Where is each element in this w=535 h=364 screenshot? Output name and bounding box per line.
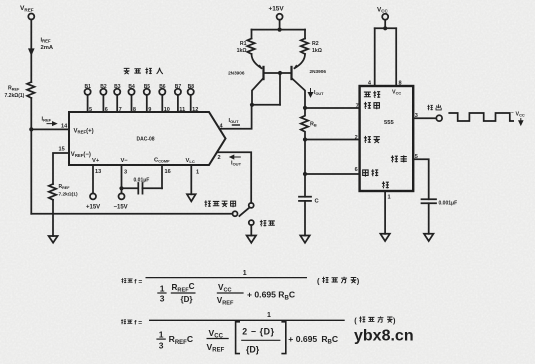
wire RREF to pin14 node <box>30 98 32 129</box>
wire pin15 <box>53 153 69 184</box>
wire rail to R1 <box>251 30 253 39</box>
junction Q1 collector node <box>250 103 254 107</box>
wire V- pin3 <box>121 165 123 193</box>
wire +15V rail <box>252 29 306 31</box>
wire trigger to threshold <box>304 140 306 175</box>
label trigger (chu fa) <box>364 136 380 143</box>
ground below 555 <box>380 234 389 241</box>
input B4 terminal <box>128 84 135 95</box>
wire discharge pin7 <box>305 107 360 109</box>
current arrow IREF 2mA <box>29 38 54 55</box>
resistor R2 1k <box>301 39 322 55</box>
wire B6 pin10 <box>161 95 163 112</box>
wire mirror bottom <box>252 104 280 106</box>
label digital-input (shu zi shu ru) <box>124 68 163 74</box>
wire IOUT pin4 to mirror <box>220 105 252 129</box>
timer U2 555 box <box>360 86 414 191</box>
capacitor 0.001uF control <box>422 199 458 206</box>
label frequency f (pin lv) <box>121 319 126 324</box>
junction VCC split <box>383 26 387 30</box>
current mirror <box>228 5 326 110</box>
label reset (fu wei) <box>364 91 380 98</box>
wire +15V down <box>279 20 281 30</box>
label linear mode (xian xing fang shi) <box>317 277 360 286</box>
wire VLC pin1 to ground <box>190 165 192 194</box>
terminal output <box>436 115 442 121</box>
junction threshold node <box>303 172 307 176</box>
bracket left <box>236 322 240 354</box>
switch S1 pole <box>249 203 254 208</box>
wire B2 pin6 <box>102 95 104 112</box>
junction base node <box>278 71 282 75</box>
DAC-08 U1 body <box>69 112 226 165</box>
label IOUT-prime with down arrow <box>308 88 324 97</box>
label IREF with right arrow <box>42 117 57 126</box>
label VCC amplitude <box>511 110 525 125</box>
ground below control cap <box>424 234 433 241</box>
wire RREF' to ground <box>52 200 54 236</box>
digital inputs header <box>85 68 199 113</box>
wire rail to R2 <box>304 30 306 39</box>
node VREF terminal <box>20 5 34 20</box>
wire VREF node down to bottom rail <box>30 129 32 213</box>
switch blade <box>239 207 249 216</box>
wire B3 pin7 <box>116 95 118 112</box>
wire linear throw to ground <box>250 225 252 235</box>
wire threshold to capacitor C <box>304 174 306 197</box>
terminal VCC top <box>377 6 389 19</box>
DAC right pins <box>218 105 252 203</box>
switch throw linear <box>249 220 254 225</box>
junction trigger node <box>303 137 307 141</box>
formula 2 expanded mode <box>121 312 414 354</box>
capacitor 0.01uF compensation <box>122 178 163 194</box>
input B6 terminal <box>159 84 166 95</box>
label frequency f (pin lv) <box>121 278 126 283</box>
resistor RB <box>301 108 317 140</box>
input B3 terminal <box>114 84 121 95</box>
resistor RREF 7.2k <box>5 82 35 99</box>
wire capacitor C to ground <box>304 201 306 236</box>
input B7 terminal <box>175 84 182 95</box>
label expanded-range (kuo zhan fan wei) <box>204 200 235 207</box>
wire base to collector tie <box>279 73 281 105</box>
junction V- node <box>119 186 123 190</box>
input B8 terminal <box>188 84 195 95</box>
ground below C <box>300 236 309 243</box>
wire IOUT-bar pin2 to switch pole <box>218 152 252 203</box>
wire control cap to ground <box>428 203 430 234</box>
input B5 terminal <box>144 84 151 95</box>
resistor R1 1k <box>237 39 255 55</box>
wire to pin8 <box>395 28 397 86</box>
switch throw expanded <box>233 211 238 216</box>
formula 1 linear mode <box>121 270 360 307</box>
transistor Q2 2N3906 <box>292 54 327 108</box>
switch area <box>204 200 274 242</box>
wire VCC split bar <box>375 27 397 29</box>
input B2 terminal <box>100 84 107 95</box>
label ground (di) <box>382 181 389 188</box>
label linear (xian xing) <box>260 220 275 226</box>
wire B5 pin9 <box>146 95 148 112</box>
junction +15V rail <box>278 28 282 32</box>
DAC bottom pins <box>86 165 199 210</box>
wire ground pin1 <box>384 191 386 234</box>
junction Q2 collector node <box>303 106 307 110</box>
waveform square wave <box>448 113 514 121</box>
ground below VLC <box>187 194 196 201</box>
junction node pin14 <box>29 127 33 131</box>
terminal +15V top <box>269 5 285 19</box>
wire VCC down <box>384 20 386 29</box>
formulas <box>121 270 414 355</box>
wire base tie <box>264 72 292 74</box>
fraction bar main <box>146 277 308 279</box>
label expanded mode (kuo zhan fang shi) <box>354 316 396 325</box>
ground below RREF' <box>49 236 58 243</box>
label output (shu chu) <box>427 104 441 110</box>
wire threshold pin6 <box>305 173 360 175</box>
wire B8 pin12 <box>190 95 192 112</box>
wire B4 pin8 <box>131 95 133 112</box>
wire output pin3 <box>413 117 436 119</box>
wire to pin4 <box>374 28 376 86</box>
label IOUT-bar pin2 with left arrow <box>230 155 242 166</box>
resistor RREF' 7.2k <box>49 184 78 200</box>
terminal +15V <box>86 193 100 210</box>
bracket right <box>281 322 285 354</box>
555 timer <box>299 6 525 243</box>
input B1 terminal <box>85 84 92 95</box>
label IOUT pin4 <box>229 118 241 125</box>
wire control pin5 <box>413 159 429 199</box>
wire pin14 <box>31 128 69 130</box>
ground below linear throw <box>247 236 256 243</box>
wire bottom rail to switch <box>31 213 232 215</box>
wire VREF down to RREF <box>30 20 32 83</box>
fraction bar main <box>149 319 345 321</box>
transistor Q1 2N3906 <box>228 54 263 105</box>
label threshold (yu zhi) <box>363 169 379 176</box>
wire CCOMP pin16 <box>161 165 163 188</box>
label control (kong zhi) <box>391 155 407 162</box>
wire trigger pin2 <box>305 139 360 141</box>
wire V+ pin13 <box>92 165 94 193</box>
capacitor C timing <box>299 197 320 205</box>
wire B7 pin11 <box>177 95 179 112</box>
wire B1 pin5 <box>87 95 89 112</box>
terminal -15V <box>114 193 128 210</box>
label discharge (fang dian) <box>364 102 380 109</box>
